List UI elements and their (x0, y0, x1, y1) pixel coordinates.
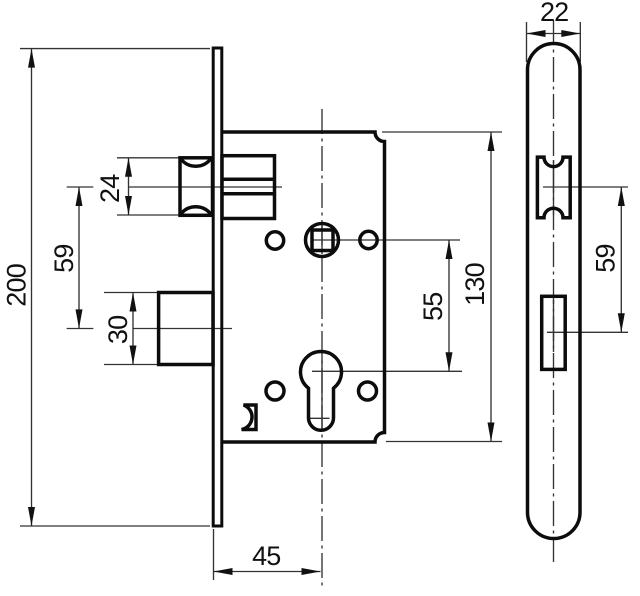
svg-text:200: 200 (1, 264, 31, 307)
svg-text:45: 45 (252, 541, 280, 571)
svg-text:59: 59 (49, 244, 79, 272)
svg-text:130: 130 (460, 263, 490, 306)
svg-text:24: 24 (95, 174, 125, 203)
svg-text:30: 30 (103, 316, 133, 344)
svg-text:22: 22 (540, 0, 568, 27)
svg-text:59: 59 (591, 244, 621, 272)
svg-text:55: 55 (418, 293, 448, 321)
